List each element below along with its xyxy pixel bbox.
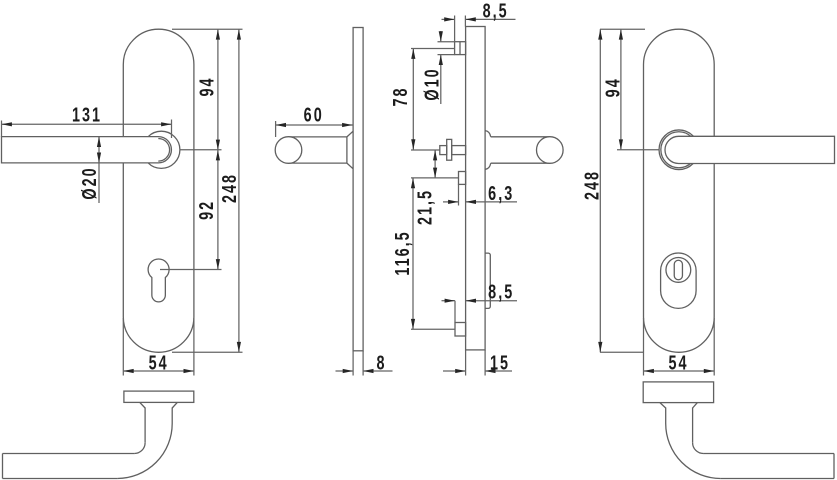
extension line right of 131 bbox=[171, 120, 173, 139]
extension line plate bottom (view 1) bbox=[172, 351, 243, 353]
neck chamfer (bottom-left handle) bbox=[140, 402, 178, 408]
inner elbow arc (bottom-right handle) bbox=[693, 443, 704, 454]
keyway slot (view 4) bbox=[674, 260, 682, 280]
handle ball end (view 2) bbox=[275, 137, 302, 164]
outer elbow arc (bottom-left handle) bbox=[117, 424, 172, 479]
dimension 248 line (view 1) bbox=[238, 29, 240, 352]
svg-text:94: 94 bbox=[195, 76, 218, 96]
extension lines 15 bbox=[465, 350, 467, 376]
bar top line (bottom-left handle) bbox=[3, 453, 135, 455]
handle flare (view 2) bbox=[347, 131, 353, 169]
svg-text:15: 15 bbox=[490, 351, 510, 374]
svg-text:116,5: 116,5 bbox=[391, 230, 414, 275]
extension line handle axis (view 3) bbox=[411, 149, 440, 151]
lower fixing stud (view 3) bbox=[455, 323, 466, 337]
spindle stub (view 3) bbox=[440, 146, 447, 155]
svg-text:Ø20: Ø20 bbox=[78, 166, 101, 199]
keyhole PZ cylinder cutout (view 1) bbox=[148, 259, 169, 302]
extension line handle axis (view 4) bbox=[617, 149, 659, 151]
top fixing bolt (view 3) bbox=[455, 42, 466, 55]
stem right line (bottom-left handle) bbox=[171, 408, 173, 424]
dimension 248 line (view 4) bbox=[599, 29, 601, 352]
svg-text:92: 92 bbox=[195, 200, 218, 220]
svg-text:54: 54 bbox=[668, 351, 688, 374]
extension line upper stud axis bbox=[411, 177, 459, 179]
dimension 131 line bbox=[2, 123, 172, 125]
extension line plate bottom (view 4) bbox=[600, 351, 644, 353]
plate (view 3, 15mm section) bbox=[466, 27, 486, 350]
handle flare (view 3) bbox=[485, 131, 491, 170]
dimension 60 line bbox=[276, 124, 353, 126]
dimension Ø20 line bbox=[98, 137, 100, 163]
extension line bolt axis bbox=[411, 48, 455, 50]
stem right line (bottom-right handle) bbox=[692, 408, 694, 443]
bar end cap (bottom-right handle) bbox=[833, 454, 835, 479]
plate (view 2, 8mm side view) bbox=[353, 28, 363, 351]
dimension Ø20 tail line bbox=[98, 163, 100, 203]
lever handle bar (view 1) bbox=[2, 137, 172, 163]
flange / plate edge (bottom-left handle) bbox=[124, 391, 194, 402]
dimension Ø10 lines bbox=[440, 31, 442, 42]
bar top line (bottom-right handle) bbox=[703, 453, 834, 455]
handle bar end inner chamfer arc (view 1) bbox=[158, 139, 169, 162]
bar bottom line (bottom-right handle) bbox=[721, 478, 834, 480]
handle neck rose circle (view 1) bbox=[143, 131, 180, 168]
extension line plate top (view 1) bbox=[172, 28, 243, 30]
outer elbow arc (bottom-right handle) bbox=[666, 424, 721, 479]
spindle inner part (view 3) bbox=[452, 146, 466, 155]
svg-text:8: 8 bbox=[376, 351, 386, 374]
extension line 60 left bbox=[275, 121, 277, 137]
handle ball end (view 3) bbox=[537, 137, 564, 164]
extension lines 54 (view 1) bbox=[122, 318, 124, 376]
dimension 8,5 top lines bbox=[442, 18, 455, 20]
bar bottom line (bottom-left handle) bbox=[3, 478, 118, 480]
extension line lower stud axis bbox=[411, 328, 455, 330]
extension lines 8 bbox=[352, 351, 354, 376]
dimension 54 line (view 4) bbox=[644, 370, 715, 372]
cylinder core circle (view 4) bbox=[666, 258, 691, 283]
upper guide stud (view 3) bbox=[459, 172, 466, 185]
dimension 116,5 line bbox=[412, 178, 414, 329]
neck chamfer (bottom-right handle) bbox=[660, 403, 698, 408]
dimension 8,5 lower lines bbox=[442, 300, 456, 302]
svg-text:8,5: 8,5 bbox=[483, 0, 509, 22]
svg-text:54: 54 bbox=[149, 351, 169, 374]
bolt washer line bbox=[459, 42, 461, 55]
svg-text:94: 94 bbox=[601, 77, 624, 97]
extension line keyhole axis (view 1) bbox=[160, 269, 222, 271]
rose inner circle (view 4) bbox=[661, 132, 697, 168]
dimension 78 line bbox=[412, 49, 414, 150]
stem left line (bottom-left handle) bbox=[144, 408, 146, 443]
plate (view 1, long stadium plate) bbox=[123, 29, 194, 352]
inner elbow arc (bottom-left handle) bbox=[134, 443, 145, 454]
dimension 94 line (view 4) bbox=[620, 29, 622, 150]
svg-text:248: 248 bbox=[218, 173, 241, 203]
extension line 6,3 bbox=[458, 184, 460, 205]
extension line left of 131 bbox=[1, 121, 3, 138]
rose outer circle (view 4) bbox=[659, 130, 699, 170]
svg-text:6,3: 6,3 bbox=[488, 182, 514, 205]
extension lines 54 (view 4) bbox=[643, 318, 645, 376]
dimension 15 lines bbox=[443, 370, 466, 372]
stem left line (bottom-right handle) bbox=[665, 408, 667, 424]
svg-text:60: 60 bbox=[304, 103, 324, 126]
svg-text:21,5: 21,5 bbox=[413, 189, 436, 225]
dimension 54 line (view 1) bbox=[123, 370, 194, 372]
bar end cap (bottom-left handle) bbox=[2, 454, 4, 479]
dimension 94 line (view 1) bbox=[217, 29, 219, 150]
extension line plate top (view 4) bbox=[600, 28, 645, 30]
dimension 92 line bbox=[217, 150, 219, 270]
svg-text:8,5: 8,5 bbox=[488, 280, 514, 303]
handle tube lines (view 3) bbox=[491, 137, 550, 163]
dimension 6,3 lines bbox=[443, 201, 459, 203]
dimension 21,5 line bbox=[434, 150, 436, 178]
svg-text:78: 78 bbox=[389, 86, 412, 106]
lever handle bar (view 4) bbox=[665, 136, 835, 163]
extension line 8,5 lower bbox=[454, 301, 456, 323]
spindle washer (view 3) bbox=[447, 139, 452, 160]
handle stub tube bottom line (view 2) bbox=[289, 162, 347, 164]
svg-text:Ø10: Ø10 bbox=[420, 67, 443, 100]
flange / plate edge (bottom-right handle) bbox=[643, 382, 713, 403]
svg-text:248: 248 bbox=[580, 170, 603, 200]
extension lines 8,5 top bbox=[454, 16, 456, 42]
dimension 8 lines bbox=[336, 370, 354, 372]
svg-text:131: 131 bbox=[72, 103, 102, 126]
cylinder guard oval (view 4) bbox=[661, 253, 697, 308]
extension lines Ø10 bbox=[438, 41, 455, 43]
plate (view 4, long stadium plate) bbox=[644, 29, 715, 352]
extension line handle axis (view 1) bbox=[180, 149, 222, 151]
handle stub tube top line (view 2) bbox=[289, 136, 347, 138]
cylinder guard strip (view 3) bbox=[485, 253, 490, 308]
